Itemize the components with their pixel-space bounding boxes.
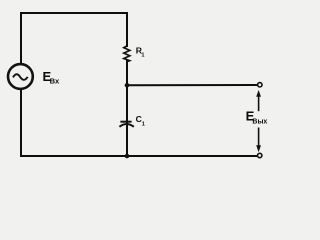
wire top bbox=[21, 13, 127, 63]
capacitor C1 bbox=[119, 122, 133, 127]
resistor R1 bbox=[124, 46, 130, 62]
arrow up (to top terminal) bbox=[256, 90, 261, 111]
arrow down (to bottom terminal) bbox=[256, 128, 261, 153]
svg-text:1: 1 bbox=[141, 52, 144, 58]
wire capacitor to bottom bbox=[126, 124, 128, 157]
label R1 bbox=[136, 46, 145, 59]
wire left bottom bbox=[20, 90, 22, 156]
label Евых bbox=[246, 109, 268, 126]
bottom junction dot bbox=[125, 154, 130, 159]
AC source G1 Евх bbox=[8, 64, 33, 89]
output terminal bottom bbox=[258, 153, 262, 157]
wire bottom bbox=[21, 155, 257, 157]
svg-text:Вых: Вых bbox=[252, 118, 267, 125]
svg-text:1: 1 bbox=[142, 121, 145, 127]
label C1 bbox=[136, 114, 145, 128]
output terminal top bbox=[258, 83, 262, 87]
wire middle (output top) bbox=[127, 84, 257, 86]
label Евх bbox=[43, 69, 60, 85]
svg-text:Вх: Вх bbox=[50, 76, 60, 85]
wire resistor to node A bbox=[126, 61, 128, 121]
node A junction dot bbox=[125, 83, 130, 88]
